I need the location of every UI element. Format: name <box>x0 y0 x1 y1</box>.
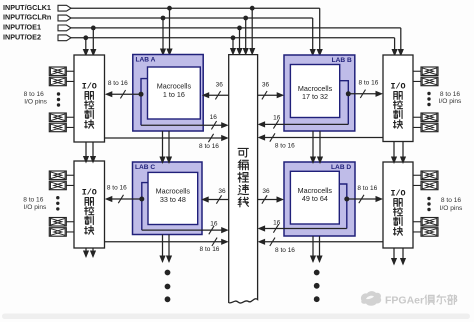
svg-text:16: 16 <box>210 220 218 227</box>
svg-text:8 to 16: 8 to 16 <box>441 197 461 204</box>
svg-text:I/O: I/O <box>390 82 405 92</box>
svg-text:FPGAer: FPGAer <box>385 295 424 307</box>
svg-text:INPUT/GCLK1: INPUT/GCLK1 <box>3 3 51 12</box>
svg-text:8 to 16: 8 to 16 <box>358 80 378 87</box>
svg-text:8 to 16: 8 to 16 <box>107 185 127 192</box>
svg-text:1 to 16: 1 to 16 <box>163 90 185 99</box>
svg-text:36: 36 <box>218 188 226 195</box>
svg-text:36: 36 <box>262 82 270 89</box>
svg-text:LAB A: LAB A <box>136 57 156 64</box>
svg-text:49 to 64: 49 to 64 <box>302 194 328 203</box>
svg-text:8 to 16: 8 to 16 <box>199 143 219 150</box>
svg-text:I/O: I/O <box>82 82 97 92</box>
svg-text:LAB C: LAB C <box>135 164 155 171</box>
svg-text:I/O: I/O <box>82 188 97 198</box>
svg-text:INPUT/OE2: INPUT/OE2 <box>3 32 41 41</box>
svg-text:LAB D: LAB D <box>331 164 351 171</box>
svg-text:16: 16 <box>273 220 281 227</box>
svg-text:8 to 16: 8 to 16 <box>108 80 128 87</box>
svg-text:8 to 16: 8 to 16 <box>275 143 295 150</box>
svg-text:I/O pins: I/O pins <box>24 204 47 211</box>
svg-text:I/O pins: I/O pins <box>440 205 463 212</box>
svg-text:8 to 16: 8 to 16 <box>275 247 295 254</box>
svg-text:LAB B: LAB B <box>332 57 352 64</box>
svg-text:I/O pins: I/O pins <box>439 98 462 105</box>
svg-text:INPUT/GCLRn: INPUT/GCLRn <box>3 13 51 22</box>
svg-text:36: 36 <box>262 188 270 195</box>
svg-text:8 to 16: 8 to 16 <box>23 197 43 204</box>
svg-text:I/O pins: I/O pins <box>24 99 47 106</box>
svg-text:17 to 32: 17 to 32 <box>302 92 328 101</box>
svg-text:16: 16 <box>273 115 281 122</box>
svg-text:8 to 16: 8 to 16 <box>24 91 44 98</box>
svg-text:8 to 16: 8 to 16 <box>440 91 460 98</box>
svg-text:INPUT/OE1: INPUT/OE1 <box>3 23 41 32</box>
svg-text:I/O: I/O <box>390 189 405 199</box>
svg-text:33 to 48: 33 to 48 <box>160 195 186 204</box>
svg-text:36: 36 <box>216 82 224 89</box>
svg-text:16: 16 <box>210 114 218 121</box>
svg-text:8 to 16: 8 to 16 <box>357 185 377 192</box>
svg-text:8 to 16: 8 to 16 <box>200 246 220 253</box>
